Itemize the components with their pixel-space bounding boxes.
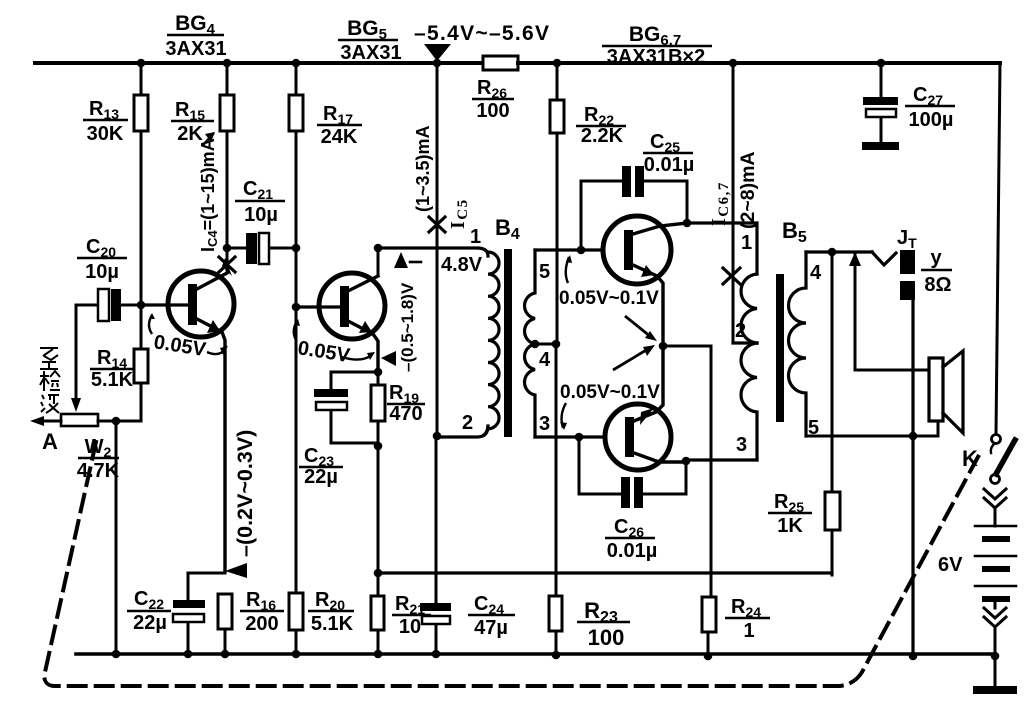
node: rail junction at R17 (292, 59, 301, 68)
leader: 0.05V to BG4 emitter (207, 350, 225, 354)
transistor BG6 (603, 216, 671, 284)
node: rail junction at R22 (553, 59, 562, 68)
svg-text:6V: 6V (938, 554, 963, 576)
label: R24 value (725, 596, 770, 642)
measuring arrow up (collector voltage) (394, 252, 408, 268)
resistor R13 30K (134, 95, 148, 131)
svg-text:1: 1 (470, 226, 481, 248)
label: R19 value (387, 382, 425, 425)
svg-text:–(0.2V~0.3V): –(0.2V~0.3V) (233, 430, 257, 557)
svg-text:5.1K: 5.1K (91, 369, 134, 391)
voltage marker: -5.4V~-5.6V triangle on rail (424, 44, 451, 61)
node: common emitter junction (659, 342, 668, 351)
loudspeaker (929, 358, 943, 421)
node: BG7 collector / C26 / B5 pin3 junction (682, 457, 691, 466)
node: BG7 base / C26 junction (575, 433, 584, 442)
measuring point x for Ic5 (429, 217, 445, 232)
svg-text:4.8V: 4.8V (441, 254, 483, 276)
svg-text:y: y (930, 247, 942, 269)
dashed mechanical link W2 to switch K (44, 442, 979, 686)
capacitor C23 22u with leads (331, 372, 378, 443)
label: R17 value (317, 103, 362, 148)
label: C20 value (77, 236, 127, 283)
svg-text:3AX31B×2: 3AX31B×2 (607, 46, 705, 68)
leader: lower 0.05V~0.1V to BG7 base (562, 403, 566, 428)
wire: R17 / BG5 base vertical (295, 63, 298, 654)
label: C26 value (605, 516, 657, 562)
resistor R24 1 (702, 597, 716, 632)
svg-text:K: K (962, 446, 978, 471)
capacitor C27 100u with leads (880, 63, 883, 142)
node: BG6 collector / C25 / B5 pin1 junction (683, 219, 692, 228)
node: BG5 base junction (292, 303, 301, 312)
svg-text:22µ: 22µ (304, 466, 338, 488)
svg-text:4: 4 (810, 262, 822, 284)
svg-text:24K: 24K (321, 126, 358, 148)
wire: speaker hot lead (855, 254, 929, 370)
transistor BG7 (605, 404, 671, 470)
svg-text:10µ: 10µ (244, 204, 278, 226)
B4 iron core (504, 249, 512, 437)
resistor R25 1K (825, 492, 840, 530)
node: W2 / ground-line junction (112, 417, 121, 426)
label: R21 value (392, 593, 431, 638)
label: C21 value (235, 178, 285, 226)
wiper arrow of W2 (71, 398, 81, 412)
wire: B5 pin3 to BG7 collector (686, 458, 757, 461)
node: rail junction at R13 (137, 59, 146, 68)
label: R14 value (90, 347, 134, 391)
capacitor C22 22u with leads (188, 573, 225, 654)
capacitor C24 47u (420, 603, 451, 611)
wire: R22/R23 bias chain vertical (556, 63, 557, 656)
svg-text:100: 100 (588, 625, 625, 650)
svg-text:–(0.5~1.8)V: –(0.5~1.8)V (398, 282, 417, 372)
label: R23 value (577, 598, 630, 650)
B5 iron core (776, 274, 784, 422)
wire: B5 pin4 to phone jack (806, 250, 872, 253)
wire: R13/R14 vertical branch (140, 63, 143, 421)
leader arrows (149, 255, 657, 430)
arrowhead: BG4 emitter (207, 320, 220, 333)
arrowhead: speaker lead tap (849, 252, 861, 266)
node: rail junction at supply feed (-5.4V point) (433, 59, 442, 68)
node: rail junction at R15 (223, 59, 232, 68)
measuring arrow for -(0.2V~0.3V) at BG4 emitter (225, 563, 247, 578)
wire: top rail right of R26 (518, 61, 1000, 65)
svg-text:4: 4 (539, 349, 551, 371)
wire: BG5 collector up to junction (377, 248, 380, 276)
measuring arrow left at BG5 emitter (381, 351, 396, 366)
label: speaker impedance (921, 247, 952, 296)
transistor BG4 (168, 271, 234, 337)
B5 primary pin1 wire (687, 223, 757, 274)
node: C20 / R14 / BG4 base junction (137, 301, 146, 310)
resistor R26 (in series with top rail) (483, 56, 518, 70)
svg-text:5: 5 (808, 417, 819, 439)
node: bottom rail junctions (112, 650, 121, 659)
wire: common emitters to R24 (663, 346, 711, 657)
label: transistors BG6,7 type (602, 23, 712, 68)
label: C24 value (468, 593, 515, 639)
svg-text:A: A (42, 429, 58, 454)
node: B4 centre tap (531, 340, 540, 349)
label: R20 value (308, 589, 354, 635)
resistor R21 10 (371, 596, 384, 630)
svg-text:0.01µ: 0.01µ (607, 540, 657, 562)
capacitor C20 10u (input coupling) (76, 304, 137, 307)
resistor R22 2.2K (550, 100, 564, 133)
label: W2 value (77, 436, 120, 482)
arrowhead: BG7 emitter (640, 408, 654, 425)
wire: R16 to bottom rail (224, 629, 227, 654)
node: R21 top / feedback line junction (374, 569, 383, 578)
node: bias divider junction (552, 340, 561, 349)
transistor BG5 (319, 273, 385, 339)
leader: lower 0.05V~0.1V to common emitter (613, 349, 648, 370)
svg-text:2: 2 (735, 320, 746, 342)
leader: 0.05V to BG5 base (294, 321, 297, 340)
feedback line from R25 to R21 top (378, 571, 832, 574)
wire: supply drop -5.4V / B4 pin2 / C24 vertical (436, 63, 437, 654)
wire: BG5 emitter chain down (377, 372, 380, 654)
node: speaker cold / pin5 junction (909, 432, 918, 441)
wire: pot left lead to input arrow A (40, 420, 61, 423)
svg-text:30K: 30K (87, 123, 124, 145)
label: R16 value (240, 589, 284, 635)
phone jack JT body (900, 250, 915, 274)
wire: W2 junction down to bottom rail (115, 421, 118, 654)
capacitor C25 0.01u with leads (581, 181, 687, 250)
svg-text:(1~3.5)mA: (1~3.5)mA (413, 125, 433, 212)
node: BG5 collector / B4 pin1 junction (374, 244, 383, 253)
label: R22 value (576, 104, 626, 147)
leader: 0.05V to BG5 emitter (342, 355, 372, 360)
wire: R25 branch (831, 252, 834, 575)
svg-text:1: 1 (743, 620, 754, 642)
B5 secondary winding (789, 252, 807, 436)
wire: B5 centre tap (733, 341, 757, 344)
B5 primary winding (741, 274, 757, 343)
arrowhead: BG6 emitter (641, 265, 654, 277)
svg-text:3: 3 (736, 434, 747, 456)
node: BG6 base / C25 junction (577, 246, 586, 255)
leader: upper 0.05V~0.1V to common emitter (625, 316, 651, 337)
svg-text:470: 470 (389, 403, 422, 425)
node: rail junction at B5 centre-tap feed (729, 59, 738, 68)
label: transistor BG5 type (338, 17, 402, 64)
label: C27 value (905, 84, 955, 131)
wire: top negative supply rail (35, 61, 483, 65)
capacitor C26 0.01u with leads (579, 437, 686, 494)
node: R25 tap on output line (828, 248, 837, 257)
svg-text:22µ: 22µ (133, 612, 167, 634)
arrowhead: BG5 emitter (359, 321, 372, 333)
svg-text:3AX31: 3AX31 (165, 38, 226, 60)
svg-text:0.05V~0.1V: 0.05V~0.1V (559, 288, 659, 309)
node: B4 pin2 junction (433, 432, 442, 441)
arrowhead: input A (30, 416, 44, 426)
potentiometer W2 4.7K body (61, 414, 98, 426)
svg-text:200: 200 (245, 613, 278, 635)
svg-text:–5.4V~–5.6V: –5.4V~–5.6V (414, 22, 550, 45)
ground: battery negative to chassis (973, 686, 1017, 694)
wire: B4 pin5 to BG6 base (535, 248, 603, 251)
wire: centre tap to bias divider (535, 343, 556, 346)
svg-text:47µ: 47µ (474, 617, 508, 639)
label: R13 value (83, 98, 128, 145)
svg-text:10µ: 10µ (85, 261, 119, 283)
resistor R19 470 (371, 385, 385, 421)
switch K (992, 435, 1001, 444)
node: BG5 emitter / C23 junction (374, 368, 383, 377)
resistor R14 5.1K (134, 349, 148, 383)
svg-text:3: 3 (539, 413, 550, 435)
label: R15 value (171, 99, 214, 145)
node: R19 bottom / C23 junction (374, 442, 383, 451)
svg-text:2.2K: 2.2K (581, 125, 624, 147)
svg-text:3AX31: 3AX31 (340, 42, 401, 64)
svg-text:0.05V~0.1V: 0.05V~0.1V (560, 382, 660, 403)
wire: input drop from C20 to volume pot wiper (75, 305, 78, 398)
svg-text:2: 2 (462, 412, 473, 434)
label: to detector (Chinese, drawn strokes) (40, 348, 60, 413)
wire: supply feed to B5 centre tap with Ic6,7 measuring point (732, 63, 735, 343)
B4 secondary winding with centre tap (525, 250, 535, 437)
wire: right edge down to switch (996, 63, 1000, 434)
leader: upper 0.05V~0.1V to BG6 base (566, 257, 569, 283)
node: rail junction at C27 (877, 59, 886, 68)
wire: pot right lead to R14 bottom (98, 420, 141, 423)
svg-text:5: 5 (539, 261, 550, 283)
svg-text:1: 1 (741, 232, 752, 254)
resistor R15 2K (220, 95, 234, 131)
svg-text:0.01µ: 0.01µ (644, 154, 694, 176)
leader: 0.05V to BG4 base (149, 315, 152, 334)
arrowhead: Ic4 label arrow (203, 134, 213, 145)
capacitor C21 10u (interstage coupling) (231, 247, 296, 250)
arrowhead: BG4 collector current direction (222, 258, 232, 276)
svg-text:(2~8)mA: (2~8)mA (737, 152, 759, 230)
svg-text:10: 10 (399, 616, 421, 638)
resistor R17 24K (289, 95, 303, 131)
wire: B4 pin3 to BG7 base (535, 435, 605, 438)
label: C25 value (643, 131, 694, 176)
resistor R23 100 (549, 596, 562, 631)
label: C23 value (299, 445, 343, 488)
svg-text:4.7K: 4.7K (77, 460, 120, 482)
wire: junction down into BG4 collector (226, 248, 229, 270)
wire: bottom ground rail (76, 652, 995, 656)
label: R26 value (472, 77, 514, 122)
measuring point x for Ic4 (219, 257, 235, 272)
wire: jack sleeve down to bottom rail (911, 300, 914, 657)
wire: B5 pin5 to speaker (806, 421, 938, 436)
wire: R15 / BG4 collector vertical (226, 63, 229, 249)
battery 6V with contact chevrons (984, 489, 1006, 508)
phone jack break contact (872, 252, 896, 265)
label: R25 value (768, 491, 812, 537)
resistor R20 5.1K (289, 593, 303, 630)
svg-text:1K: 1K (777, 515, 803, 537)
svg-text:8Ω: 8Ω (924, 274, 951, 296)
label: C22 value (127, 588, 171, 634)
label: transistor BG4 type (165, 12, 226, 60)
svg-text:100µ: 100µ (909, 109, 954, 131)
svg-text:100: 100 (476, 100, 509, 122)
svg-text:5.1K: 5.1K (311, 613, 354, 635)
B4 primary winding (378, 248, 488, 256)
node: BG4 collector / C21 junction (223, 244, 232, 253)
resistor R16 200 (218, 594, 232, 629)
